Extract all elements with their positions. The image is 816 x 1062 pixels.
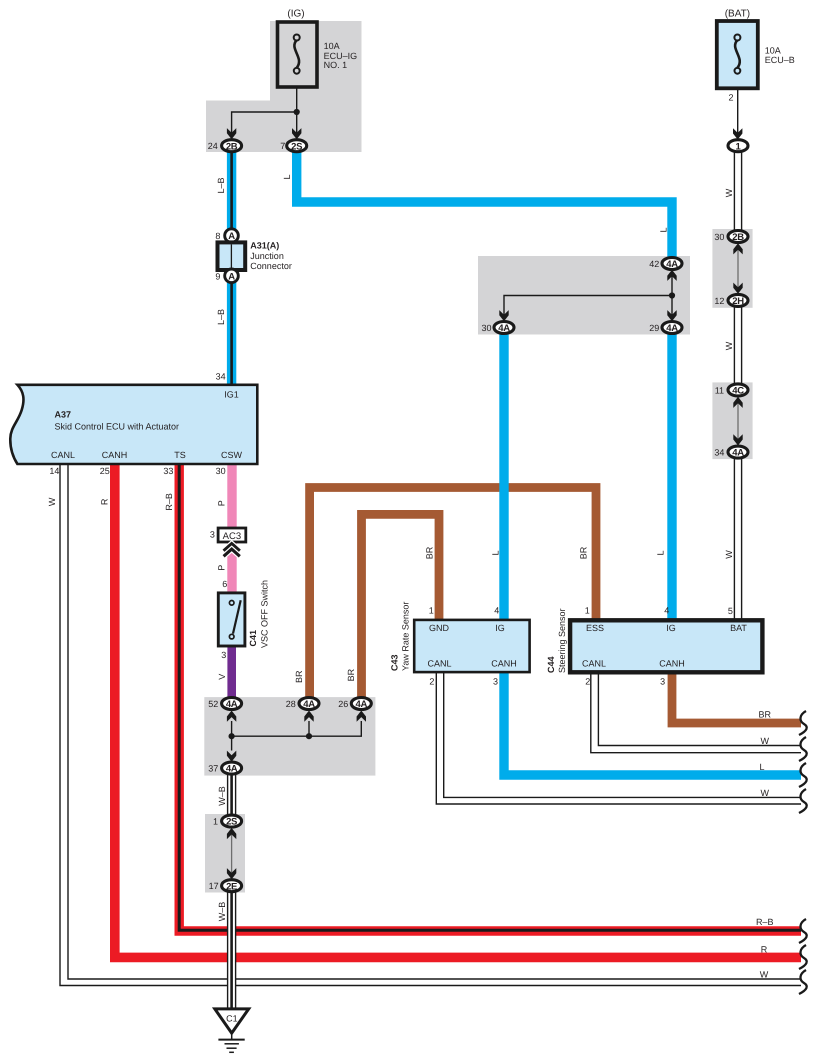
svg-text:2B: 2B	[226, 141, 238, 152]
svg-text:42: 42	[649, 259, 659, 269]
svg-text:R–B: R–B	[164, 493, 174, 511]
svg-text:L: L	[759, 762, 764, 772]
connector oval 26-4A	[338, 698, 371, 711]
svg-text:2E: 2E	[226, 881, 237, 892]
svg-text:L: L	[282, 174, 292, 179]
svg-text:30: 30	[481, 323, 491, 333]
continuation squiggle (L)	[799, 763, 807, 787]
sensor C44 Steering Sensor	[546, 608, 762, 673]
svg-text:W–B: W–B	[217, 786, 227, 806]
svg-text:4: 4	[494, 605, 499, 615]
svg-text:Skid Control ECU with Actuator: Skid Control ECU with Actuator	[55, 422, 180, 432]
shaded harness region (middle, 4A junction)	[478, 256, 690, 335]
svg-text:IG: IG	[666, 623, 676, 633]
svg-text:L: L	[490, 550, 500, 555]
svg-text:A37: A37	[55, 410, 72, 420]
svg-text:Junction: Junction	[250, 251, 284, 261]
connector oval 52-4A	[208, 698, 241, 711]
svg-text:VSC OFF Switch: VSC OFF Switch	[259, 580, 269, 648]
connector oval 1 (ECU-B)	[728, 140, 748, 153]
svg-text:52: 52	[208, 699, 218, 709]
svg-text:2: 2	[728, 93, 733, 103]
continuation squiggle (R)	[799, 945, 807, 969]
svg-text:L: L	[655, 550, 665, 555]
svg-text:6: 6	[222, 579, 227, 589]
connector oval 30-4A	[481, 322, 514, 335]
svg-text:CANL: CANL	[427, 659, 451, 669]
svg-text:W: W	[760, 736, 769, 746]
svg-text:2B: 2B	[732, 232, 744, 243]
wire BR (C44 CANH to right edge)	[672, 672, 801, 723]
svg-text:L: L	[658, 227, 668, 232]
wire P (A37 CSW to AC3 to C41 pin6)	[227, 464, 236, 593]
arrow up into 26-4A	[357, 711, 366, 722]
svg-text:10A: 10A	[324, 41, 340, 51]
svg-text:24: 24	[208, 141, 218, 151]
middle 4A junction: thin lines and arrows	[504, 271, 672, 322]
svg-text:2S: 2S	[226, 817, 237, 828]
wire W (C43 CANL to right edge)	[436, 672, 801, 804]
svg-text:BAT: BAT	[730, 623, 747, 633]
wire R (A37 CANH to right edge)	[115, 464, 801, 957]
svg-text:IG1: IG1	[224, 389, 239, 399]
svg-text:W–B: W–B	[217, 902, 227, 922]
svg-text:BR: BR	[578, 546, 588, 559]
arrow into 24-2B	[227, 128, 236, 139]
svg-text:P: P	[216, 565, 226, 571]
arrow into 29-4A	[667, 310, 676, 321]
arrow up into 28-4A	[304, 711, 313, 722]
fuse ECU-B (BAT)	[717, 21, 758, 88]
svg-text:7: 7	[280, 141, 285, 151]
wire BR (28-4A up over to C44 ESS)	[310, 488, 596, 698]
svg-text:A31(A): A31(A)	[250, 241, 279, 251]
svg-text:4C: 4C	[732, 386, 744, 397]
svg-text:3: 3	[493, 677, 498, 687]
svg-text:30: 30	[714, 232, 724, 242]
svg-text:R: R	[100, 498, 110, 505]
wire W (BAT fuse connector 1 down right column to C44 BAT)	[734, 152, 741, 621]
svg-text:L–B: L–B	[216, 177, 226, 193]
svg-text:CANH: CANH	[659, 659, 685, 669]
svg-text:28: 28	[286, 699, 296, 709]
svg-text:BR: BR	[346, 668, 356, 681]
svg-text:29: 29	[649, 323, 659, 333]
svg-text:3: 3	[221, 650, 226, 660]
arrow up into 52-4A	[227, 711, 236, 722]
fuse ECU-IG NO.1 (IG)	[278, 22, 318, 87]
svg-text:4A: 4A	[356, 699, 368, 710]
arrow into 37-4A	[227, 751, 236, 762]
wire R-B (A37 TS to right edge)	[179, 464, 801, 931]
svg-text:8: 8	[215, 231, 220, 241]
wire W-B (2E to ground C1)	[228, 893, 236, 1010]
continuation squiggle (W2)	[799, 789, 807, 813]
svg-text:2H: 2H	[732, 296, 744, 307]
svg-text:C43: C43	[389, 654, 399, 671]
svg-text:W: W	[724, 550, 734, 559]
svg-text:R: R	[761, 945, 768, 955]
shaded harness region (bottom-left, 4A junction)	[204, 697, 375, 776]
wire L (30-4A to C43 IG)	[499, 334, 508, 620]
svg-text:CANL: CANL	[582, 659, 606, 669]
svg-text:25: 25	[100, 466, 110, 476]
svg-text:4A: 4A	[732, 448, 744, 459]
shaded harness region (top, IG fuse)	[206, 21, 362, 152]
svg-text:C44: C44	[546, 656, 556, 673]
svg-text:11: 11	[715, 385, 724, 395]
svg-text:9: 9	[215, 271, 220, 281]
svg-text:ECU–B: ECU–B	[765, 55, 795, 65]
svg-text:2: 2	[585, 677, 590, 687]
ground C1	[215, 1009, 249, 1052]
arrow into 7-2S	[292, 128, 301, 139]
svg-text:V: V	[217, 674, 227, 680]
arrow into connector 1	[733, 128, 742, 139]
svg-text:33: 33	[163, 466, 173, 476]
svg-text:1: 1	[429, 605, 434, 615]
svg-text:W: W	[724, 188, 734, 197]
svg-text:C1: C1	[226, 1014, 238, 1024]
svg-text:CANH: CANH	[102, 450, 128, 460]
svg-text:(BAT): (BAT)	[725, 9, 750, 20]
svg-text:BR: BR	[424, 546, 434, 559]
svg-text:P: P	[217, 500, 227, 506]
connector oval 28-4A	[286, 698, 319, 711]
junction node (below IG fuse)	[294, 109, 300, 115]
arrow up into 42-4A	[667, 270, 676, 281]
svg-text:17: 17	[209, 881, 219, 891]
sensor C43 Yaw Rate Sensor	[389, 602, 529, 672]
svg-text:4: 4	[664, 605, 669, 615]
connector oval 42-4A	[649, 258, 682, 271]
shield chevrons below AC3	[224, 544, 240, 557]
bottom 4A junction thin lines	[232, 721, 362, 751]
svg-text:W: W	[760, 969, 769, 979]
wire W (A37 CANL to right edge)	[60, 464, 801, 986]
svg-text:34: 34	[714, 448, 724, 458]
2S/2E connectors	[209, 815, 242, 892]
shield connector AC3	[210, 528, 246, 542]
right column 4C/4A connectors	[714, 384, 748, 459]
svg-text:4A: 4A	[226, 699, 238, 710]
ECU A37 Skid Control ECU with Actuator	[10, 385, 257, 464]
wire L (fuse 2S to 42-4A)	[297, 152, 672, 258]
svg-text:W: W	[47, 497, 57, 506]
svg-text:CANL: CANL	[51, 450, 75, 460]
svg-text:1: 1	[213, 817, 218, 827]
wire L (C43 CANH to right edge)	[504, 672, 801, 776]
right column 2B/2H connectors	[714, 231, 748, 308]
connector oval 7-2S	[280, 140, 307, 153]
svg-text:L–B: L–B	[216, 309, 226, 325]
switch C41 VSC OFF Switch	[218, 580, 269, 648]
svg-text:14: 14	[49, 466, 59, 476]
svg-text:CANH: CANH	[491, 659, 517, 669]
svg-text:NO. 1: NO. 1	[324, 60, 348, 70]
svg-text:4A: 4A	[666, 259, 678, 270]
svg-text:A: A	[228, 271, 235, 282]
svg-text:W: W	[724, 341, 734, 350]
svg-text:26: 26	[338, 699, 348, 709]
svg-text:C41: C41	[248, 630, 258, 647]
shaded harness region (right, 2B/2H)	[712, 229, 752, 308]
svg-text:TS: TS	[174, 450, 186, 460]
wire W-B (37-4A to 2S)	[228, 775, 236, 815]
wire L (29-4A to C44 IG)	[667, 334, 676, 621]
continuation squiggle (BR)	[799, 711, 807, 735]
shaded harness region (2S/2E)	[205, 814, 245, 893]
wire L-B (fuse 2B to A31 to A37 IG1)	[227, 152, 236, 385]
svg-text:GND: GND	[429, 623, 450, 633]
svg-text:Yaw Rate Sensor: Yaw Rate Sensor	[400, 602, 410, 671]
shaded harness region (right, 4C/4A)	[712, 382, 752, 459]
connector oval 24-2B	[208, 140, 242, 153]
fuse ECU-IG NO.1 leads and junction	[232, 75, 297, 139]
svg-text:5: 5	[728, 606, 733, 616]
svg-text:ESS: ESS	[586, 623, 604, 633]
svg-text:Connector: Connector	[250, 261, 292, 271]
svg-text:2S: 2S	[291, 141, 302, 152]
svg-text:1: 1	[585, 605, 590, 615]
svg-text:34: 34	[216, 372, 226, 382]
svg-text:2: 2	[429, 677, 434, 687]
svg-text:Steering Sensor: Steering Sensor	[557, 608, 567, 673]
svg-text:4A: 4A	[303, 699, 315, 710]
svg-text:30: 30	[216, 466, 226, 476]
wire BR (26-4A up over to C43 GND)	[362, 514, 440, 697]
svg-text:4A: 4A	[226, 764, 238, 775]
wire W (C44 CANL to right edge)	[591, 674, 801, 753]
continuation squiggle (W3)	[799, 970, 807, 994]
arrow into 30-4A	[499, 310, 508, 321]
svg-text:IG: IG	[495, 623, 505, 633]
svg-text:4A: 4A	[498, 323, 510, 334]
svg-text:4A: 4A	[666, 323, 678, 334]
svg-text:3: 3	[210, 530, 215, 540]
junction connector A31(A)	[215, 229, 291, 283]
continuation squiggle (R-B)	[799, 919, 807, 943]
connector oval 37-4A	[208, 762, 241, 775]
svg-text:37: 37	[208, 764, 218, 774]
svg-text:12: 12	[714, 296, 724, 306]
continuation squiggle (W)	[799, 737, 807, 761]
wire V (C41 pin3 to 52-4A)	[227, 646, 236, 698]
svg-text:(IG): (IG)	[287, 9, 304, 20]
svg-text:W: W	[760, 788, 769, 798]
svg-text:3: 3	[660, 677, 665, 687]
svg-text:BR: BR	[294, 670, 304, 683]
svg-text:BR: BR	[758, 710, 771, 720]
connector oval 29-4A	[649, 322, 682, 335]
fuse ECU-B lead	[737, 75, 739, 139]
svg-text:CSW: CSW	[221, 450, 243, 460]
svg-text:R–B: R–B	[756, 917, 774, 927]
